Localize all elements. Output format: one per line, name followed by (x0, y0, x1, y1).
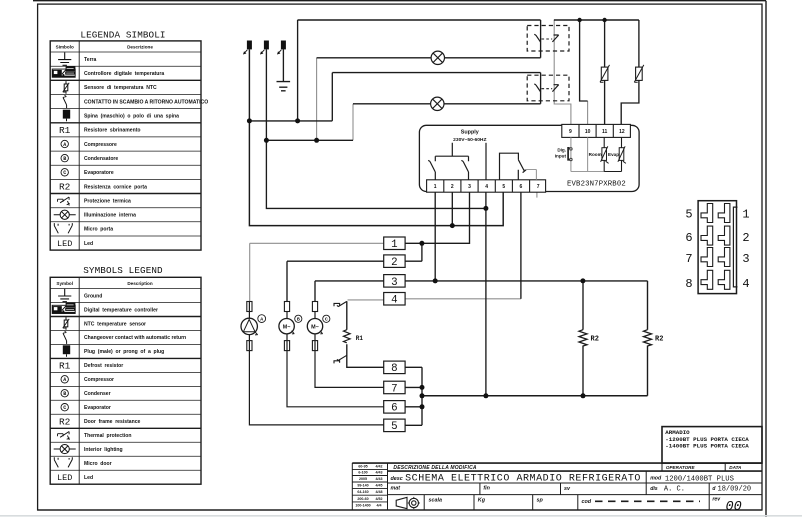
svg-text:SYMBOLS LEGEND: SYMBOLS LEGEND (83, 265, 163, 276)
svg-text:OPERATORE: OPERATORE (666, 465, 696, 470)
svg-text:R2: R2 (59, 182, 71, 193)
svg-text:SCHEMA ELETTRICO ARMADIO REFRI: SCHEMA ELETTRICO ARMADIO REFRIGERATO (405, 474, 641, 485)
svg-text:8: 8 (391, 363, 397, 375)
svg-text:mod: mod (650, 476, 662, 482)
svg-text:Changeover contact with automa: Changeover contact with automatic return (84, 335, 186, 341)
svg-text:sp: sp (537, 498, 544, 504)
svg-text:4: 4 (485, 184, 488, 190)
svg-text:LED: LED (57, 473, 72, 483)
svg-text:NTC temperature sensor: NTC temperature sensor (84, 321, 146, 327)
svg-text:4/43: 4/43 (376, 477, 383, 481)
svg-text:5: 5 (502, 184, 505, 190)
svg-text:Condensatore: Condensatore (84, 156, 118, 162)
svg-text:4/42: 4/42 (376, 464, 383, 468)
svg-text:Interior lighting: Interior lighting (84, 447, 123, 453)
svg-text:Compressor: Compressor (84, 377, 114, 383)
svg-text:64-160: 64-160 (357, 490, 368, 494)
svg-text:Plug (male) or prong of a plug: Plug (male) or prong of a plug (84, 349, 164, 355)
svg-text:6: 6 (685, 231, 692, 245)
svg-text:Digital temperature controller: Digital temperature controller (84, 307, 158, 313)
svg-text:Led: Led (84, 475, 93, 481)
svg-text:B: B (63, 391, 66, 397)
svg-text:R1: R1 (59, 125, 71, 136)
svg-text:ARMADIO: ARMADIO (665, 429, 690, 436)
svg-text:12: 12 (619, 129, 625, 135)
svg-text:Condenser: Condenser (84, 391, 111, 397)
svg-text:Evaporatore: Evaporatore (84, 170, 114, 176)
svg-text:DESCRIZIONE DELLA MODIFICA: DESCRIZIONE DELLA MODIFICA (393, 465, 477, 471)
svg-text:Led: Led (84, 241, 93, 247)
svg-text:fin: fin (483, 486, 490, 492)
svg-text:Descrizione: Descrizione (127, 44, 153, 49)
svg-text:6: 6 (391, 403, 397, 415)
svg-text:Supply: Supply (461, 130, 479, 136)
svg-text:-1400BT PLUS PORTA CIECA: -1400BT PLUS PORTA CIECA (665, 443, 749, 450)
svg-text:4/48: 4/48 (376, 490, 383, 494)
svg-text:2005: 2005 (359, 477, 367, 481)
svg-text:Sensore di temperatura NTC: Sensore di temperatura NTC (84, 85, 157, 91)
svg-text:2: 2 (451, 184, 454, 190)
svg-text:99-140: 99-140 (357, 484, 368, 488)
svg-text:11: 11 (602, 129, 608, 135)
svg-text:4/52: 4/52 (376, 497, 383, 501)
svg-text:Description: Description (127, 281, 152, 286)
svg-text:EVB23N7PXRB02: EVB23N7PXRB02 (567, 181, 626, 189)
svg-text:Evap: Evap (608, 152, 619, 157)
svg-text:R2: R2 (591, 336, 599, 344)
svg-text:Controllore digitale temperatu: Controllore digitale temperatura (84, 71, 164, 77)
svg-text:4/4: 4/4 (377, 504, 382, 508)
svg-text:8: 8 (685, 277, 692, 291)
svg-text:Spina (maschio) o polo di una: Spina (maschio) o polo di una spina (84, 114, 179, 120)
svg-text:Protezione termica: Protezione termica (84, 198, 131, 204)
svg-text:230V~50-60HZ: 230V~50-60HZ (453, 137, 486, 143)
svg-text:Input: Input (555, 154, 567, 159)
svg-text:Terra: Terra (84, 57, 97, 63)
svg-text:B: B (63, 156, 66, 162)
svg-text:Evaporator: Evaporator (84, 405, 111, 411)
svg-text:Micro door: Micro door (84, 461, 112, 467)
svg-text:cod: cod (582, 499, 592, 505)
svg-text:Dig.: Dig. (557, 147, 566, 152)
svg-text:1: 1 (391, 239, 397, 251)
svg-text:M~: M~ (311, 324, 319, 330)
svg-text:CONTATTO IN SCAMBIO A RITORNO: CONTATTO IN SCAMBIO A RITORNO AUTOMATICO (84, 99, 208, 105)
svg-text:7: 7 (391, 383, 397, 395)
svg-text:1: 1 (434, 184, 437, 190)
svg-text:R2: R2 (655, 336, 663, 344)
svg-text:18/09/20: 18/09/20 (718, 485, 752, 493)
svg-text:10: 10 (585, 129, 591, 135)
svg-text:Ground: Ground (84, 293, 102, 299)
svg-text:Illuminazione interna: Illuminazione interna (84, 213, 136, 219)
svg-text:scala: scala (429, 498, 443, 504)
svg-text:2: 2 (742, 231, 749, 245)
svg-text:Thermal protection: Thermal protection (84, 433, 131, 439)
svg-text:6-100: 6-100 (358, 471, 367, 475)
svg-text:Kg: Kg (478, 498, 486, 504)
svg-text:sv: sv (564, 486, 571, 492)
svg-text:A. C.: A. C. (664, 485, 685, 493)
svg-text:Compressore: Compressore (84, 142, 117, 148)
svg-text:C: C (63, 170, 66, 176)
svg-text:A: A (63, 142, 66, 148)
svg-text:00: 00 (726, 500, 742, 515)
svg-text:3: 3 (742, 252, 749, 266)
svg-text:7: 7 (685, 252, 692, 266)
svg-text:Resistenza cornice porta: Resistenza cornice porta (84, 184, 147, 190)
svg-text:B: B (297, 317, 300, 323)
svg-text:Simbolo: Simbolo (56, 44, 74, 49)
svg-text:60-95: 60-95 (358, 464, 367, 468)
svg-text:LEGENDA SIMBOLI: LEGENDA SIMBOLI (80, 30, 165, 41)
svg-text:M~: M~ (283, 324, 291, 330)
svg-text:C: C (325, 317, 328, 323)
svg-text:Door frame resistance: Door frame resistance (84, 419, 141, 425)
svg-text:A: A (260, 317, 263, 323)
svg-text:5: 5 (391, 421, 397, 433)
svg-text:Resistore sbrinamento: Resistore sbrinamento (84, 128, 141, 134)
svg-text:100-1400: 100-1400 (355, 504, 370, 508)
svg-text:4/45: 4/45 (376, 484, 383, 488)
svg-text:6: 6 (520, 184, 523, 190)
svg-text:C: C (63, 405, 66, 411)
svg-text:desc: desc (391, 476, 403, 482)
svg-text:LED: LED (57, 239, 72, 249)
svg-text:3: 3 (468, 184, 471, 190)
svg-text:4: 4 (391, 295, 397, 307)
svg-text:DATA: DATA (729, 465, 741, 470)
svg-text:2: 2 (391, 257, 397, 269)
svg-text:4: 4 (742, 277, 749, 291)
svg-text:R1: R1 (59, 360, 71, 371)
svg-text:3: 3 (391, 277, 397, 289)
svg-text:1: 1 (742, 207, 749, 221)
svg-text:dis: dis (650, 486, 658, 492)
svg-text:Micro porta: Micro porta (84, 227, 113, 233)
svg-text:A: A (63, 377, 66, 383)
svg-text:5: 5 (685, 207, 692, 221)
svg-text:200-60: 200-60 (357, 497, 368, 501)
svg-text:R2: R2 (59, 416, 71, 427)
svg-text:R1: R1 (356, 335, 364, 342)
svg-text:4/43: 4/43 (376, 471, 383, 475)
svg-text:Defrost resistor: Defrost resistor (84, 363, 123, 369)
svg-text:mat: mat (391, 486, 401, 492)
svg-text:Room: Room (589, 152, 602, 157)
svg-text:1200/1400BT PLUS: 1200/1400BT PLUS (665, 476, 734, 484)
svg-text:rev: rev (712, 497, 721, 503)
svg-text:7: 7 (537, 184, 540, 190)
svg-text:Symbol: Symbol (56, 281, 73, 286)
svg-text:9: 9 (569, 129, 572, 135)
